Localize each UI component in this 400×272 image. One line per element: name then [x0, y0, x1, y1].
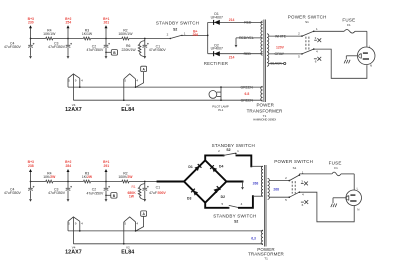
capacitor C4 47uF/350V (bottom)	[30, 182, 32, 189]
ground below C4	[29, 56, 32, 59]
power transformer T1 primary coil	[267, 34, 269, 66]
svg-text:12AX7: 12AX7	[65, 250, 82, 256]
svg-text:254: 254	[65, 21, 71, 25]
bottom transformer core	[263, 165, 265, 247]
svg-text:268: 268	[253, 181, 259, 185]
svg-text:47uF/500V: 47uF/500V	[149, 191, 166, 195]
svg-text:PL1: PL1	[218, 108, 223, 112]
svg-text:POWER: POWER	[256, 103, 274, 108]
svg-text:S1: S1	[305, 20, 309, 24]
pilot lamp PL1	[220, 87, 222, 100]
terminal box A	[141, 66, 147, 71]
capacitor C3 47uF/350V	[67, 39, 69, 46]
tube V4 12AX7 heater (bottom)	[68, 217, 80, 221]
bottom node junction x=144.8	[144, 181, 146, 183]
svg-text:EL84: EL84	[121, 107, 134, 113]
svg-text:STANDBY SWITCH: STANDBY SWITCH	[156, 20, 199, 25]
svg-text:S2: S2	[234, 219, 238, 223]
svg-text:S2: S2	[226, 148, 230, 152]
svg-text:R1: R1	[132, 185, 136, 189]
node junction on top rail x=68.0	[67, 38, 69, 40]
node junction on top rail x=106.0	[105, 38, 107, 40]
power switch S1 bottom pole 5	[289, 196, 291, 198]
svg-text:120V: 120V	[276, 45, 285, 49]
bottom transformer 6.3V heater coil	[261, 230, 263, 245]
svg-text:STANDBY SWITCH: STANDBY SWITCH	[213, 213, 256, 218]
terminal box B	[105, 52, 107, 54]
diode D4 (bridge top-right)	[212, 167, 217, 172]
svg-text:214: 214	[229, 55, 235, 59]
ground at bridge negative	[241, 187, 244, 190]
capacitor C2 47uF/350V	[105, 39, 107, 46]
bottom heater bottom rail wire	[73, 243, 263, 245]
tube V2 EL84 heater	[124, 74, 136, 79]
power switch S1 arm 2-1	[302, 31, 314, 36]
node B+2 stub arrow	[67, 28, 69, 39]
resistor R3 1K/1W	[83, 37, 90, 40]
svg-text:TRANSFORMER: TRANSFORMER	[247, 108, 283, 113]
svg-text:12AX7: 12AX7	[65, 107, 82, 113]
power switch S1 pole 2	[301, 35, 303, 37]
heater bottom rail wire	[73, 99, 262, 101]
wire bottom switch contact 4 to plug neutral	[299, 192, 354, 222]
svg-text:47uF/350V: 47uF/350V	[48, 45, 66, 49]
wire rail node to bold segment	[145, 181, 158, 183]
standby switch S2 top pole and arm	[223, 155, 225, 157]
diode D2 (bridge bottom-right)	[214, 188, 219, 193]
wire standby switch to transformer secondary top	[237, 155, 252, 166]
svg-text:6,3: 6,3	[251, 237, 256, 241]
wire switch to rectifier junction B+	[182, 34, 208, 36]
bottom node B+2 stub arrow	[67, 172, 69, 182]
power switch S1 bottom arm 2-1	[289, 175, 299, 181]
wire bottom fuse to plug	[341, 173, 354, 175]
wire bridge top corner to standby switch	[205, 155, 223, 160]
power switch S1 bottom unused contact 6	[301, 201, 304, 203]
power switch S1 pole 5	[301, 53, 303, 55]
resistor R2 100K/1W	[122, 37, 129, 40]
svg-text:HAMMOND 269EX: HAMMOND 269EX	[253, 118, 276, 122]
svg-text:100K/1W: 100K/1W	[118, 32, 133, 36]
svg-text:RECTIFIER: RECTIFIER	[204, 61, 228, 66]
svg-text:F1: F1	[334, 166, 338, 170]
terminal box A (bottom)	[141, 211, 147, 216]
bottom transformer primary coil	[268, 178, 270, 199]
power switch S1 bottom mechanical link	[291, 181, 293, 194]
svg-text:N: N	[357, 207, 359, 211]
ground below C2	[105, 56, 108, 59]
capacitor C1 47uF/350V	[144, 39, 146, 46]
node B+3 stub arrow	[30, 28, 32, 39]
svg-text:POWER SWITCH: POWER SWITCH	[288, 15, 327, 20]
svg-text:100K/2W: 100K/2W	[118, 175, 133, 179]
power switch S1 mechanical link (dashed)	[305, 37, 307, 51]
svg-text:RED: RED	[244, 21, 252, 25]
node B+1 stub arrow	[105, 28, 107, 39]
svg-text:47uF/350V: 47uF/350V	[4, 191, 22, 195]
svg-text:EL84: EL84	[121, 250, 134, 256]
bold wire rail to bridge left corner	[158, 181, 185, 183]
svg-text:FUSE: FUSE	[329, 161, 342, 166]
ground below bottom C1	[143, 199, 146, 202]
top B+ rail wire	[31, 38, 46, 40]
resistor R4 10K/2W (bottom)	[46, 180, 53, 183]
primary lead WHITE	[269, 35, 302, 37]
diode D1 UF4007	[208, 21, 263, 23]
ground below bottom C3	[67, 199, 70, 202]
capacitor C1 47uF/500V (bottom)	[144, 182, 146, 189]
svg-text:C1: C1	[156, 185, 160, 189]
power switch S1 bottom arm 5-4	[289, 192, 299, 197]
svg-text:D3: D3	[187, 196, 191, 200]
svg-text:238: 238	[28, 164, 34, 168]
bottom B+ rail wire	[31, 181, 46, 183]
svg-text:D2: D2	[221, 195, 225, 199]
svg-text:FUSE: FUSE	[342, 18, 355, 23]
svg-text:268: 268	[273, 187, 279, 191]
primary lead GRAY	[269, 53, 302, 55]
svg-text:S1: S1	[293, 166, 297, 170]
svg-text:UF4007: UF4007	[211, 16, 223, 20]
bottom primary lead bottom wire	[269, 196, 289, 198]
svg-text:6.8: 6.8	[245, 92, 250, 96]
tube V4 12AX7 heater	[68, 74, 80, 78]
AC plug P1	[357, 47, 375, 65]
svg-text:RED/YEL: RED/YEL	[239, 36, 254, 40]
wire fuse to plug hot	[355, 30, 367, 32]
diode D2 UF4007	[208, 53, 263, 55]
fuse F1	[344, 30, 355, 34]
tube V2 EL84 heater (bottom)	[124, 217, 136, 222]
svg-text:1K/2W: 1K/2W	[82, 175, 93, 179]
fuse F1 (bottom)	[332, 172, 341, 176]
bottom heater top rail wire	[68, 230, 263, 232]
svg-text:D1: D1	[188, 165, 192, 169]
svg-text:POWER SWITCH: POWER SWITCH	[274, 159, 313, 164]
bottom node junction x=30.5	[30, 181, 32, 183]
heater top rail wire	[68, 86, 263, 88]
svg-text:220K/1W: 220K/1W	[122, 48, 137, 52]
wire switch contact 1 to fuse	[314, 30, 344, 32]
wire box A to EL84 pin 4	[136, 72, 144, 88]
svg-text:47uF/350V: 47uF/350V	[86, 48, 104, 52]
standby switch S2 pole and arm	[170, 38, 171, 39]
svg-text:47uF/350V: 47uF/350V	[86, 192, 104, 196]
bold wire bridge right corner to ground	[226, 181, 242, 183]
svg-text:UF4007: UF4007	[211, 47, 223, 51]
svg-text:N: N	[370, 64, 372, 68]
bottom plug ground lead and chassis ground	[333, 197, 346, 199]
svg-text:47uF/350V: 47uF/350V	[149, 48, 167, 52]
node junction on top rail x=144.8	[144, 38, 146, 40]
svg-text:1W: 1W	[129, 195, 135, 199]
ground below C1	[143, 56, 146, 59]
wire box A to EL84 pin 4 (bottom)	[136, 216, 144, 231]
bottom transformer HV secondary coil	[261, 166, 263, 196]
bottom node junction x=106.0	[105, 181, 107, 183]
AC plug P1 (bottom)	[346, 190, 362, 206]
capacitor C4 47uF/350V	[30, 39, 32, 46]
svg-text:261: 261	[103, 21, 109, 25]
svg-text:10K/2W: 10K/2W	[43, 175, 56, 179]
capacitor C3 47uF/350V (bottom)	[67, 182, 69, 189]
resistor R3 1K/2W (bottom)	[83, 180, 90, 183]
wire bridge bottom corner to standby switch	[205, 203, 228, 208]
svg-text:GRAY: GRAY	[275, 52, 285, 56]
ground below bottom C2	[105, 199, 108, 202]
power switch S1 unused contact 6	[314, 58, 317, 60]
power transformer T1 core	[263, 20, 265, 103]
wire switch contact 4 to plug neutral	[314, 49, 367, 78]
diode D3 (bridge bottom-left)	[193, 191, 198, 196]
bottom primary lead top wire	[269, 180, 289, 182]
svg-text:WHITE: WHITE	[275, 34, 287, 38]
standby switch S2 bottom pole and arm	[228, 207, 230, 209]
svg-text:1K/1W: 1K/1W	[82, 32, 93, 36]
capacitor C2 47uF/350V (bottom)	[105, 182, 107, 189]
node junction on top rail x=30.5	[30, 38, 32, 40]
svg-text:266: 266	[192, 33, 198, 37]
resistor R6 220K/1W (parallel with C1)	[140, 41, 145, 45]
terminal box B (bottom)	[105, 195, 107, 197]
power switch S1 unused contact 3	[314, 39, 317, 41]
resistor R2 100K/2W (bottom)	[122, 180, 129, 183]
svg-text:47uF/350V: 47uF/350V	[4, 45, 22, 49]
bottom node B+1 stub arrow	[105, 172, 107, 182]
svg-text:RED: RED	[244, 52, 252, 56]
bottom node junction x=68.0	[67, 181, 69, 183]
plug ground lead and chassis ground	[346, 55, 357, 57]
power switch S1 arm 5-4	[302, 49, 314, 54]
primary lead BLACK unused	[269, 63, 284, 65]
resistor R4 10K/1W	[46, 37, 53, 40]
resistor R1 680K 1W (bottom, parallel with C1)	[140, 184, 145, 188]
rectifier output junction wire	[207, 22, 209, 53]
bridge rectifier diamond	[184, 160, 226, 202]
wire standby switch to transformer secondary bottom	[239, 196, 253, 208]
wire bottom switch contact 1 to fuse	[298, 174, 300, 175]
power switch S1 bottom pole 2	[289, 180, 291, 182]
diode D1 (bridge top-left)	[195, 166, 200, 171]
svg-text:291: 291	[103, 164, 109, 168]
svg-text:284: 284	[65, 164, 71, 168]
power transformer T1 HV secondary coil	[261, 21, 263, 55]
transformer 6.3V heater secondary coil	[261, 86, 263, 101]
svg-text:BLACK: BLACK	[271, 62, 283, 66]
bottom node B+3 stub arrow	[30, 172, 32, 182]
svg-text:STANDBY SWITCH: STANDBY SWITCH	[212, 143, 255, 148]
svg-text:230: 230	[28, 21, 34, 25]
transformer T1 center tap RED/YEL to ground	[236, 37, 263, 39]
ground below C3	[67, 56, 70, 59]
svg-text:47uF/350V: 47uF/350V	[48, 191, 66, 195]
svg-text:T1: T1	[264, 256, 268, 260]
svg-text:214: 214	[229, 18, 235, 22]
svg-text:S2: S2	[173, 27, 177, 31]
svg-text:D4: D4	[219, 165, 223, 169]
svg-text:F1: F1	[347, 23, 351, 27]
svg-text:T1: T1	[263, 114, 267, 118]
power switch S1 bottom unused contact 3	[301, 182, 304, 184]
ground below bottom C4	[29, 199, 32, 202]
svg-text:10K/1W: 10K/1W	[43, 32, 56, 36]
